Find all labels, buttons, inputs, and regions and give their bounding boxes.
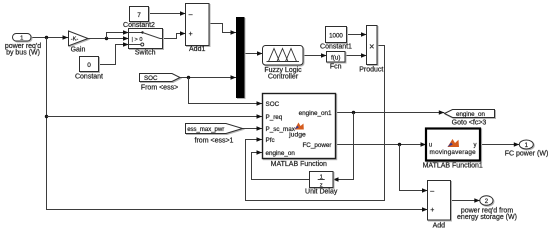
svg-text:1: 1 <box>20 36 23 42</box>
svg-text:judge: judge <box>288 132 306 139</box>
label: Fuzzy Logic Controller <box>264 67 302 81</box>
wire: Add output to outport 2 <box>451 198 480 202</box>
unit delay block (mirrored) <box>310 172 334 189</box>
svg-text:+: + <box>430 207 434 214</box>
label: from <ess>1 <box>195 138 234 145</box>
label: From <ess> <box>141 85 178 92</box>
wire: Product output down around to Pfc input of judge <box>246 46 385 201</box>
junction: SOC branch <box>187 76 190 79</box>
junction: FC_power branch <box>398 143 401 146</box>
svg-text:u: u <box>429 143 432 149</box>
wire: Switch output to Add1 plus input <box>163 31 186 38</box>
svg-text:7: 7 <box>137 12 141 19</box>
svg-text:engine_on: engine_on <box>456 111 485 118</box>
svg-text:P_req: P_req <box>266 114 283 121</box>
svg-text:movingaverage: movingaverage <box>430 149 477 156</box>
label: power req'd by bus (W) <box>5 43 41 57</box>
wire: ess_max_pwr From tag to P_sc_max input <box>243 126 263 130</box>
constant2 block value 7 <box>130 7 149 22</box>
svg-text:Add1: Add1 <box>189 46 205 53</box>
SOC from tag <box>140 74 181 83</box>
svg-text:0: 0 <box>87 62 91 69</box>
label: Goto <fc>3 <box>452 120 487 127</box>
switch block <box>129 29 163 49</box>
product block <box>367 26 378 65</box>
svg-text:engine_on1: engine_on1 <box>299 110 332 117</box>
MATLAB Function block judge <box>263 94 336 159</box>
svg-text:energy storage (W): energy storage (W) <box>457 214 517 221</box>
svg-text:engine_on: engine_on <box>266 150 296 157</box>
svg-text:Constant2: Constant2 <box>123 22 155 29</box>
label: Unit Delay <box>305 189 338 196</box>
wire: SOC From tag to Mux input 2 <box>180 75 236 79</box>
svg-text:Gain: Gain <box>71 47 86 54</box>
wire: Constant2 to Add1 minus input <box>149 11 186 15</box>
label: Fcn <box>330 64 342 71</box>
wire: Gain output to Switch control input <box>88 36 129 40</box>
label: Product <box>359 67 383 74</box>
wire: Fcn to Product input 2 <box>345 53 367 57</box>
svg-text:y: y <box>474 143 477 149</box>
fuzzy logic controller block <box>263 46 304 66</box>
wire: Constant1 to Product input 1 <box>347 32 367 36</box>
label: Gain <box>71 47 86 54</box>
label: Constant2 <box>123 22 155 29</box>
wire: inport1 to Gain <box>31 35 68 39</box>
MATLAB Function1 block movingaverage <box>426 129 480 161</box>
svg-text:Controller: Controller <box>268 74 299 81</box>
label: MATLAB Function <box>271 161 327 168</box>
svg-text:Constant1: Constant1 <box>320 44 352 51</box>
inport 1 <box>13 34 32 42</box>
wire: bus power down the left side to Add plus input <box>47 38 428 212</box>
svg-text:From <ess>: From <ess> <box>141 85 178 92</box>
svg-text:Switch: Switch <box>135 50 156 57</box>
svg-text:Product: Product <box>359 67 383 74</box>
wire: Mux output to Fuzzy Logic Controller <box>245 51 263 55</box>
svg-text:from <ess>1: from <ess>1 <box>195 138 234 145</box>
wire: bus power to P_req input of judge <box>47 114 263 118</box>
svg-text:FC power (W): FC power (W) <box>505 151 549 158</box>
wire: judge engine_on1 output to Goto <box>336 110 445 114</box>
svg-text:Pfc: Pfc <box>266 137 275 144</box>
svg-text:| > 0: | > 0 <box>132 37 143 43</box>
svg-text:MATLAB Function: MATLAB Function <box>271 161 327 168</box>
svg-text:Constant: Constant <box>75 74 103 81</box>
svg-text:Add: Add <box>433 223 446 230</box>
wire: Add1 output to Mux input 1 <box>209 24 236 35</box>
label: Constant <box>75 74 103 81</box>
add block <box>428 181 451 221</box>
wire: FC_power branch down to Add minus input <box>400 145 428 193</box>
gain block <box>69 31 89 46</box>
fcn block f(u) <box>327 52 346 63</box>
junction: P_req branch <box>45 115 48 118</box>
svg-text:ess_max_pwr: ess_max_pwr <box>187 127 224 133</box>
svg-text:f(u): f(u) <box>331 55 340 62</box>
svg-text:Unit Delay: Unit Delay <box>305 189 338 196</box>
svg-text:–: – <box>189 11 193 18</box>
wire: SOC branch to SOC input of judge <box>189 78 263 106</box>
wire: Gain output branch to Switch input 1 <box>107 30 129 38</box>
wire: Unit Delay output back to engine_on input of judge <box>252 150 310 179</box>
label: power req'd from energy storage (W) <box>457 208 517 222</box>
wire: Constant to Switch input 3 <box>99 42 129 64</box>
label: MATLAB Function1 <box>423 163 483 170</box>
svg-text:-K-: -K- <box>71 37 79 43</box>
label: Switch <box>135 50 156 57</box>
wire: judge FC_power output to movingaverage input <box>336 142 427 146</box>
svg-text:by bus (W): by bus (W) <box>6 50 40 57</box>
ess_max_pwr from tag <box>186 124 243 134</box>
add1 block <box>186 4 210 46</box>
outport 1 <box>519 140 533 149</box>
junction: bus power branch at x46 <box>45 36 48 39</box>
svg-text:FC_power: FC_power <box>302 142 331 149</box>
svg-text:Goto <fc>3: Goto <fc>3 <box>452 120 487 127</box>
outport 2 <box>480 196 493 206</box>
svg-text:SOC: SOC <box>266 101 280 108</box>
svg-text:Fcn: Fcn <box>330 64 342 71</box>
svg-text:MATLAB Function1: MATLAB Function1 <box>423 163 483 170</box>
svg-text:+: + <box>189 31 193 38</box>
svg-text:SOC: SOC <box>144 75 158 82</box>
label: Add <box>433 223 446 230</box>
wire: movingaverage output to outport 1 <box>480 142 519 146</box>
wire: engine_on1 branch down to Unit Delay input <box>333 113 354 182</box>
svg-text:×: × <box>369 42 374 52</box>
wire: Fuzzy Logic Controller to Fcn <box>303 53 327 57</box>
label: FC power (W) <box>505 151 549 158</box>
junction: engine_on1 branch <box>352 111 355 114</box>
label: Constant1 <box>320 44 352 51</box>
mux block <box>236 17 245 98</box>
constant block value 0 <box>80 57 99 72</box>
junction: gain output branch <box>105 37 108 40</box>
label: Add1 <box>189 46 205 53</box>
svg-text:1000: 1000 <box>329 32 343 39</box>
constant1 block value 1000 <box>326 27 347 43</box>
svg-text:–: – <box>430 188 434 195</box>
goto tag engine_on <box>445 110 495 118</box>
